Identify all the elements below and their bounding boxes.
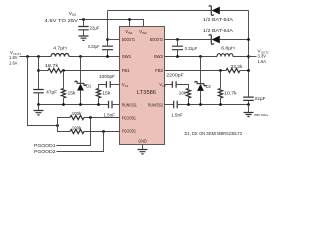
wire BOOST1 vertical [107,11,109,47]
node input cap junction [82,18,85,21]
svg-text:D2: D2 [206,84,211,89]
wire V_IN1 stub [129,20,131,27]
ground left rail [38,105,40,111]
resistor 100k PGOOD1 [58,118,71,126]
capacitor 0.22uF ch2 [177,40,179,47]
node rail 10k [187,103,190,106]
capacitor 2200pF VC2 [165,84,173,86]
capacitor 0.22uF ch1 [102,46,113,50]
svg-text:22µF: 22µF [255,96,266,101]
node pullup junction [26,55,29,58]
capacitor 1.5nF RUN/SS1 [109,101,113,109]
svg-text:SW2: SW2 [154,54,164,59]
svg-text:1.5nF: 1.5nF [104,112,116,117]
node rail output cap [247,103,250,106]
svg-text:PGOOD1: PGOOD1 [122,115,136,120]
svg-text:BOOST1: BOOST1 [122,37,136,42]
node SW2 cap junction [176,55,179,58]
svg-text:10k: 10k [179,90,187,95]
svg-text:22µF: 22µF [90,25,100,30]
node 10.7k junction [219,69,222,72]
svg-text:1.8V: 1.8V [9,55,18,60]
node 18.7k FB junction [37,69,40,72]
svg-text:100k: 100k [72,125,82,130]
node rail 47uF [37,103,40,106]
resistor 18.7k [39,70,49,72]
node rail 15k [62,103,65,106]
svg-text:D1: D1 [86,84,91,89]
wire 18.7k tap vertical [38,57,40,90]
wire PGOOD1 net stub [57,118,91,146]
ground input cap [79,36,89,40]
svg-text:PGOOD1: PGOOD1 [34,143,56,149]
svg-text:PGOOD2: PGOOD2 [122,129,136,134]
diode 1/2 BAT-54A lower [209,35,213,45]
wire left ground rail [39,104,109,106]
node BOOST2 junction [176,38,179,41]
svg-text:0.22µF: 0.22µF [88,44,100,49]
svg-text:GND: GND [138,139,147,144]
node 15k FB1 junction [62,69,65,72]
node rail 10.7k [219,103,222,106]
svg-text:IN: IN [72,13,76,17]
node PGOOD1 net junction [89,116,92,119]
svg-text:FB2: FB2 [155,68,163,73]
svg-text:BOOST2: BOOST2 [150,37,164,42]
ground right rail [248,105,250,113]
wire VOUT2 stub [249,56,257,58]
node pullup split [56,124,59,127]
node boost rail VOUT2 [247,38,250,41]
wire PGOOD2 net stub [57,132,104,152]
svg-text:2200pF: 2200pF [166,72,184,77]
capacitor 1000pF VC1 [110,84,119,86]
svg-text:IN2: IN2 [142,31,147,35]
svg-text:PGOOD2: PGOOD2 [34,149,56,155]
wire BOOST2 rail [165,39,249,41]
svg-text:4.5V TO 25V: 4.5V TO 25V [45,18,79,24]
wire VOUT2 vertical [248,11,250,97]
svg-text:1/2 BAT-54A: 1/2 BAT-54A [203,17,234,22]
svg-text:C1: C1 [125,84,129,88]
wire SW2 row [165,56,249,58]
svg-text:RUN/SS2: RUN/SS2 [148,103,163,108]
op-amp U1 LT3586 IC body [120,27,165,145]
wire BOOST1 pin [108,39,120,41]
svg-text:10.7k: 10.7k [224,90,237,95]
node VOUT2 33.2k [247,69,250,72]
ground GND pin [142,145,144,150]
node VOUT2 inductor [247,55,250,58]
resistor 100k PGOOD2 [58,126,71,132]
svg-text:4.7µH: 4.7µH [53,46,67,51]
svg-text:0.22µF: 0.22µF [185,46,197,51]
diode 1/2 BAT-54A top [209,6,213,16]
svg-text:47µF: 47µF [46,90,57,95]
svg-text:SW1: SW1 [122,54,132,59]
svg-text:18.7k: 18.7k [45,63,59,68]
wire VOUT1 pullup drop [28,57,58,126]
node PGOOD2 net junction [102,130,105,133]
node BOOST1 junction [106,38,109,41]
svg-text:15k: 15k [68,90,77,95]
wire FB1 row [62,70,120,72]
resistor 33.2k [226,68,240,72]
svg-text:1.6A: 1.6A [258,59,267,64]
resistor 15k ch1 comp [96,88,100,97]
diode D2 [200,57,202,84]
node rail 15k comp [97,103,100,106]
svg-text:1.5nF: 1.5nF [171,112,183,117]
capacitor 22uF input [83,20,85,27]
resistor 10k VC2 [186,88,190,97]
node D2 junction [199,55,202,58]
svg-text:100k: 100k [72,111,82,116]
node V_IN1 junction [128,18,131,21]
node SW1 cap junction [106,55,109,58]
capacitor 47uF [33,90,44,93]
svg-text:3586 TA01a: 3586 TA01a [254,113,268,117]
resistor 15k ch1 [63,71,65,89]
svg-text:3.3V: 3.3V [258,54,267,59]
node rail D2 [199,103,202,106]
svg-text:IN1: IN1 [128,31,133,35]
wire top boost rail [108,10,249,12]
svg-text:D1, D2: ON SEMI MBRS230LT3: D1, D2: ON SEMI MBRS230LT3 [185,131,243,136]
node 18.7k junction [37,55,40,58]
svg-text:1000pF: 1000pF [99,74,115,79]
inductor 6.8uH [217,54,233,57]
wire VOUT1 / SW1 row [20,56,120,58]
node D1 junction [79,55,82,58]
svg-text:15k: 15k [102,90,111,95]
svg-text:LT3586: LT3586 [137,90,156,96]
capacitor 1.5nF RUN/SS2 [165,104,174,106]
diode D1 [80,57,82,84]
wire right ground rail [177,104,248,106]
svg-text:33.2k: 33.2k [231,64,244,69]
svg-text:RUN/SS1: RUN/SS1 [122,103,137,108]
inductor 4.7uH [51,54,69,57]
svg-text:1.6A: 1.6A [9,60,18,65]
svg-text:1/2 BAT-54A: 1/2 BAT-54A [203,28,234,33]
resistor 10.7k [220,71,222,89]
svg-text:6.8µH: 6.8µH [221,45,235,50]
wire V_IN rail [79,20,144,27]
node rail D1 [79,103,82,106]
svg-text:FB1: FB1 [122,68,130,73]
wire FB2 row [165,70,227,72]
capacitor 22uF output [243,97,254,100]
